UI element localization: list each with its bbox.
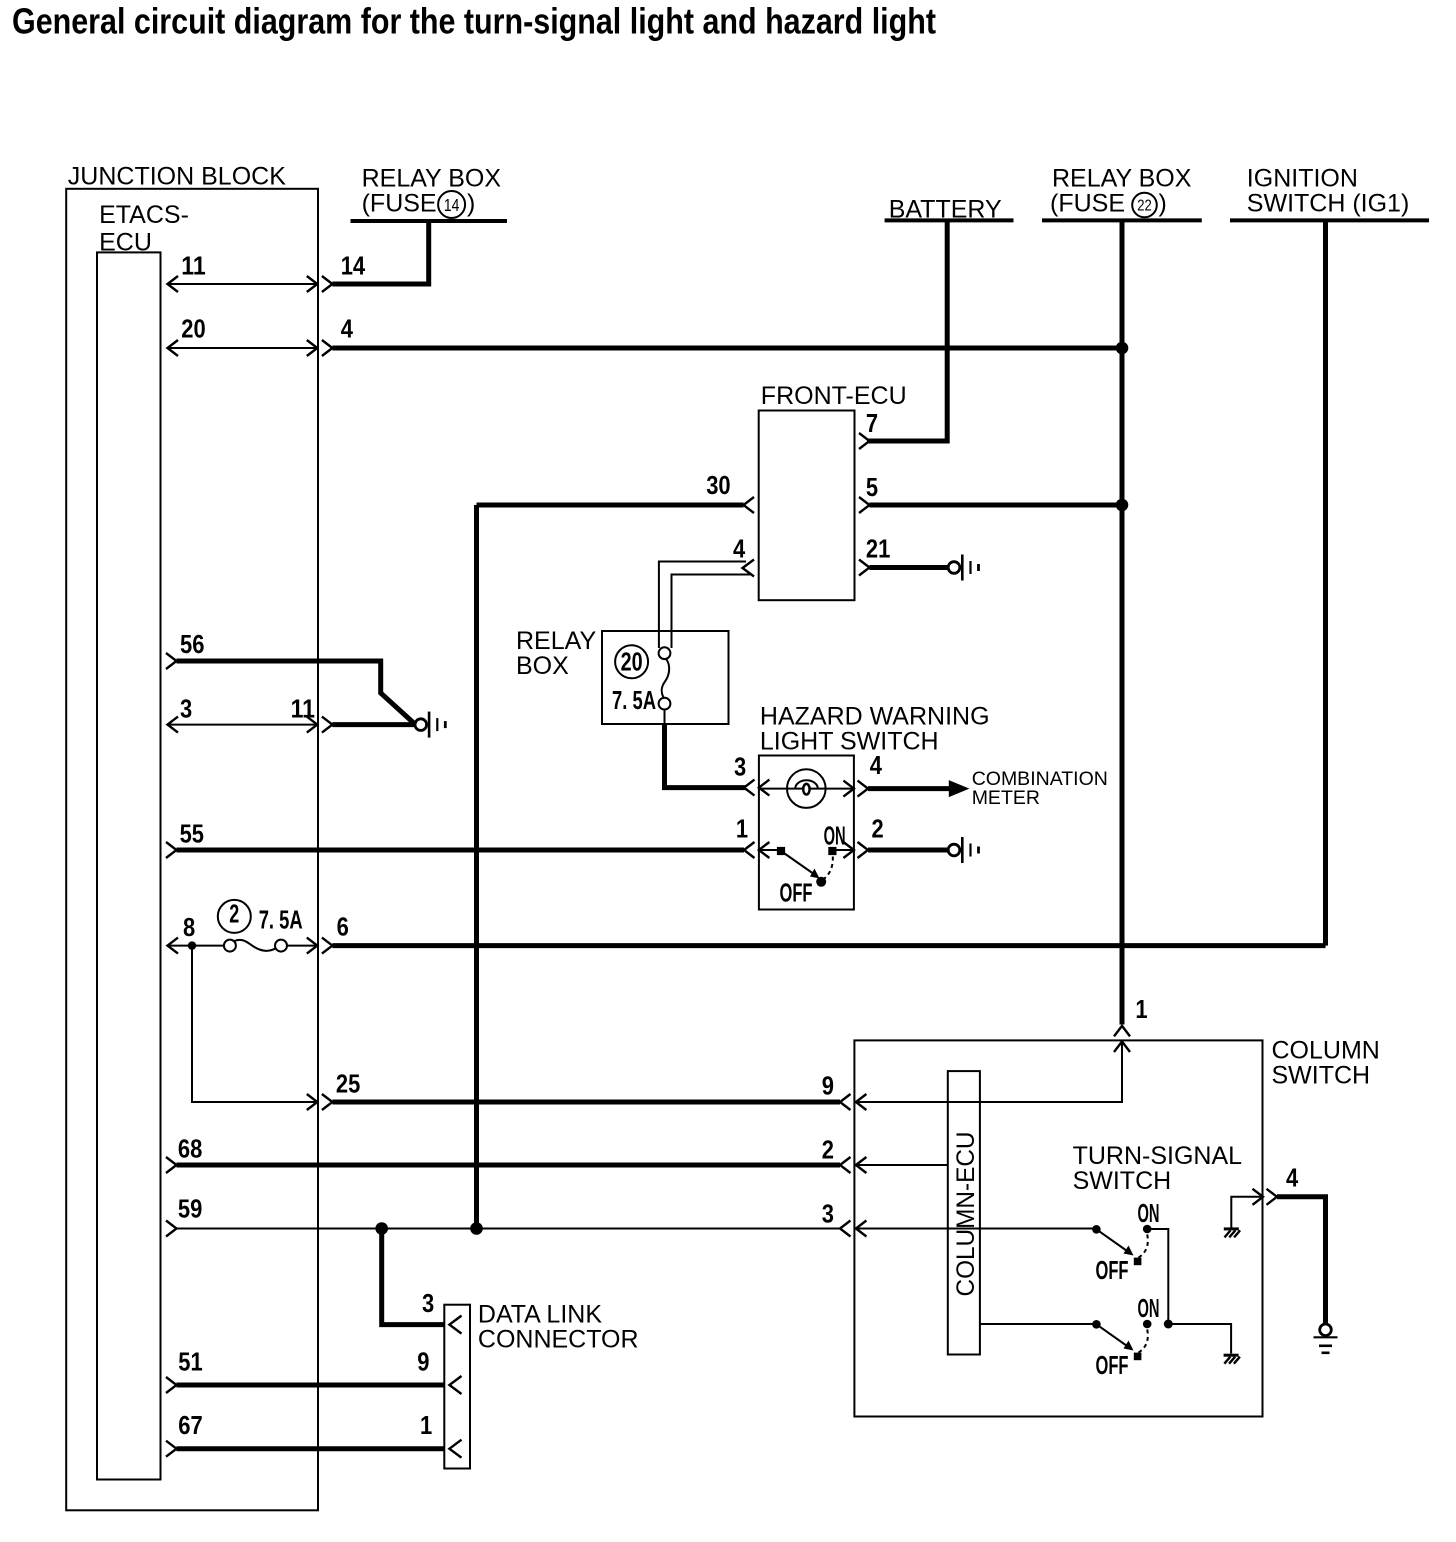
arrow: JB edge y=1102 bbox=[307, 1094, 318, 1110]
pin 4 external wire + ground bbox=[1277, 1197, 1326, 1324]
svg-text:67: 67 bbox=[178, 1410, 202, 1440]
switch 1 bbox=[1092, 1198, 1159, 1285]
arrow: FRONT-ECU pin 4 (tall) bbox=[743, 560, 755, 577]
hazard pin 4 wire to combination meter bbox=[868, 786, 950, 791]
svg-text:59: 59 bbox=[178, 1194, 202, 1224]
SECTION: arrows bbox=[166, 276, 1277, 1458]
svg-text:IGNITION: IGNITION bbox=[1247, 164, 1358, 192]
wire fuse14 to pin 14 bbox=[332, 221, 428, 284]
arrow: hazard right pin y=788.6 bbox=[843, 781, 854, 797]
svg-text:ON: ON bbox=[1138, 1198, 1160, 1228]
arrow: JB edge y=724.6 bbox=[307, 717, 318, 733]
svg-text:RELAY: RELAY bbox=[516, 627, 596, 655]
svg-text:General circuit diagram for th: General circuit diagram for the turn-sig… bbox=[12, 1, 936, 42]
SECTION: column switch bbox=[1272, 1036, 1380, 1089]
wire 25 thick external bbox=[332, 1100, 840, 1105]
arrow: column switch left y=1102 bbox=[840, 1094, 851, 1110]
svg-text:JUNCTION BLOCK: JUNCTION BLOCK bbox=[68, 162, 286, 190]
junction dot at fuse22/wire4 bbox=[1116, 342, 1129, 355]
svg-text:3: 3 bbox=[822, 1199, 834, 1229]
svg-text:): ) bbox=[1159, 190, 1167, 218]
wire 3-11 thin bbox=[168, 724, 318, 726]
arrow: DLC pin y=1385 bbox=[449, 1376, 461, 1394]
svg-text:SWITCH: SWITCH bbox=[1073, 1167, 1172, 1195]
pin 5 wire to fuse22 line bbox=[870, 503, 1123, 508]
SECTION: hazard warning light switch bbox=[760, 703, 990, 756]
SECTION: pin number labels bbox=[178, 250, 1299, 1440]
circled 2 + 7.5A label bbox=[218, 898, 303, 934]
arrow: FRONT-ECU pin 30 bbox=[744, 497, 755, 513]
fuse22 drop wire down to column switch bbox=[1120, 220, 1125, 1024]
switch 2 input from column-ecu bbox=[980, 1323, 1097, 1325]
arrow: ETACS pin in y=284 bbox=[168, 276, 179, 292]
wire 8 branch down to wire 25 bbox=[192, 946, 317, 1102]
chassis ground inside column switch (pin 4) bbox=[1224, 1229, 1240, 1238]
svg-text:CONNECTOR: CONNECTOR bbox=[478, 1326, 639, 1354]
pin 3 internal wire to switch1 bbox=[856, 1228, 1097, 1230]
svg-text:22: 22 bbox=[1137, 197, 1152, 214]
svg-text:1: 1 bbox=[736, 814, 748, 844]
svg-text:21: 21 bbox=[866, 534, 890, 564]
arrow: JB edge y=348 bbox=[307, 340, 318, 356]
hazard internal pin3-4 wire with lamp bbox=[759, 788, 854, 790]
pin 4 internal wire + chassis ground bbox=[1231, 1197, 1263, 1228]
dlc pin3 branch bbox=[382, 1229, 445, 1325]
arrow: FRONT-ECU right pin y=567.5 bbox=[859, 560, 870, 576]
pin 4 double wire to fuse 20 bbox=[659, 562, 746, 649]
SECTION: data link connector bbox=[478, 1301, 639, 1354]
junction dot wire59/dlc3 bbox=[375, 1222, 388, 1235]
fuse20 output to hazard pin 3 bbox=[665, 724, 746, 788]
svg-text:14: 14 bbox=[341, 250, 366, 280]
svg-text:OFF: OFF bbox=[780, 878, 813, 908]
column-ecu box bbox=[948, 1071, 980, 1354]
column switch box bbox=[854, 1040, 1262, 1416]
junction dot switch outputs bbox=[1164, 1320, 1173, 1329]
svg-text:51: 51 bbox=[178, 1346, 202, 1376]
wire 11-14 (thin both-ends) bbox=[168, 283, 318, 285]
turn-signal switch label bbox=[1073, 1142, 1243, 1195]
svg-text:68: 68 bbox=[178, 1134, 202, 1164]
wire 4 thick to fuse22 line bbox=[332, 346, 1122, 351]
arrow: JB edge y=284 bbox=[307, 276, 318, 292]
svg-text:3: 3 bbox=[734, 752, 746, 782]
battery terminal bar bbox=[885, 218, 1014, 222]
relay box (fuse 22) terminal bar bbox=[1042, 218, 1202, 222]
pin 2 internal wire bbox=[856, 1164, 948, 1166]
svg-text:METER: METER bbox=[972, 787, 1040, 809]
svg-text:6: 6 bbox=[337, 912, 349, 942]
svg-text:4: 4 bbox=[870, 750, 883, 780]
svg-text:TURN-SIGNAL: TURN-SIGNAL bbox=[1073, 1142, 1243, 1170]
junction block box bbox=[66, 189, 318, 1511]
svg-text:2: 2 bbox=[872, 814, 884, 844]
svg-text:(FUSE: (FUSE bbox=[362, 190, 437, 218]
switch output to chassis ground bbox=[1168, 1324, 1231, 1354]
svg-text:8: 8 bbox=[183, 912, 195, 942]
arrow: column switch left y=1165 bbox=[840, 1157, 851, 1173]
arrow: DLC pin y=1448.7 bbox=[449, 1440, 461, 1458]
svg-text:RELAY BOX: RELAY BOX bbox=[362, 164, 502, 192]
svg-text:11: 11 bbox=[181, 250, 205, 280]
svg-text:): ) bbox=[467, 190, 475, 218]
pin 9 internal wire bbox=[856, 1101, 1122, 1103]
svg-text:SWITCH (IG1): SWITCH (IG1) bbox=[1247, 190, 1410, 218]
svg-text:3: 3 bbox=[422, 1288, 434, 1318]
hazard warning light switch box bbox=[759, 756, 854, 910]
arrow: ETACS pin out y=1448.7 bbox=[166, 1441, 177, 1457]
arrow: hazard right pin y=850 bbox=[843, 842, 854, 858]
svg-text:55: 55 bbox=[180, 819, 204, 849]
arrow: hazard left pin y=850 bbox=[744, 842, 755, 858]
svg-text:7: 7 bbox=[866, 408, 878, 438]
arrow: column switch top pin 1 bbox=[1114, 1026, 1130, 1037]
arrow: ETACS pin out y=850 bbox=[166, 842, 177, 858]
wire 20-4 thin bbox=[168, 347, 318, 349]
arrow: ETACS pin out y=661 bbox=[166, 653, 177, 669]
arrow: FRONT-ECU right pin y=441 bbox=[859, 433, 870, 449]
arrow: ETACS pin in y=945.6 bbox=[168, 938, 179, 954]
svg-text:DATA LINK: DATA LINK bbox=[478, 1301, 602, 1329]
pin30 vertical line bbox=[474, 505, 479, 1229]
ETACS-ECU label bbox=[99, 201, 189, 256]
svg-text:5: 5 bbox=[866, 472, 878, 502]
arrow: hazard left pin y=787.6 bbox=[744, 780, 755, 796]
wire 6 thick bbox=[332, 943, 1325, 948]
wire 51 bbox=[177, 1383, 445, 1388]
svg-text:ON: ON bbox=[1138, 1293, 1160, 1323]
svg-text:14: 14 bbox=[444, 195, 460, 215]
wire 67 bbox=[177, 1446, 445, 1451]
hazard indicator lamp bbox=[787, 769, 826, 808]
data link connector box bbox=[444, 1305, 470, 1469]
svg-text:25: 25 bbox=[336, 1069, 360, 1099]
arrow: ETACS pin in y=724.6 bbox=[168, 717, 179, 733]
svg-text:4: 4 bbox=[341, 314, 354, 344]
ground symbol at FRONT-ECU pin 21 bbox=[948, 555, 978, 581]
svg-text:7. 5A: 7. 5A bbox=[259, 904, 303, 934]
wire 59 bbox=[177, 1228, 841, 1230]
wire 56 bbox=[177, 661, 416, 725]
pin 30 wire bbox=[477, 503, 744, 508]
wire 11 thick to ground bbox=[332, 722, 415, 727]
svg-text:ETACS-: ETACS- bbox=[99, 201, 189, 229]
pin 21 wire + ground bbox=[870, 565, 949, 570]
arrow: column switch pin 4 bbox=[1253, 1189, 1264, 1205]
svg-text:20: 20 bbox=[621, 647, 643, 677]
fuse 2 symbol bbox=[224, 940, 287, 952]
switch1 out wire down bbox=[1147, 1229, 1168, 1324]
arrow: JB edge y=945.6 bbox=[307, 938, 318, 954]
svg-text:1: 1 bbox=[1135, 994, 1147, 1024]
svg-text:3: 3 bbox=[180, 693, 192, 723]
svg-text:2: 2 bbox=[822, 1135, 834, 1165]
ignition switch label bbox=[1247, 164, 1410, 217]
battery feed wire to FRONT-ECU pin 7 bbox=[867, 220, 947, 441]
IG1 drop wire to wire 6 bbox=[1323, 220, 1328, 945]
svg-text:SWITCH: SWITCH bbox=[1272, 1061, 1371, 1089]
ground for wires 56/11 bbox=[415, 712, 445, 738]
svg-text:1: 1 bbox=[420, 1410, 432, 1440]
svg-text:HAZARD WARNING: HAZARD WARNING bbox=[760, 703, 990, 731]
relay box (fuse 14) terminal bar bbox=[351, 219, 508, 223]
arrow: ETACS pin out y=1228.5 bbox=[166, 1221, 177, 1237]
ignition switch terminal bar bbox=[1230, 218, 1429, 222]
svg-text:FRONT-ECU: FRONT-ECU bbox=[761, 382, 907, 410]
svg-text:56: 56 bbox=[180, 629, 204, 659]
svg-text:OFF: OFF bbox=[1096, 1255, 1129, 1285]
wire 55 bbox=[177, 848, 745, 853]
wire 8-6 with fuse 2 bbox=[168, 945, 225, 947]
svg-text:11: 11 bbox=[291, 693, 315, 723]
battery label bbox=[889, 195, 1002, 223]
svg-text:9: 9 bbox=[417, 1346, 429, 1376]
svg-text:OFF: OFF bbox=[1096, 1350, 1129, 1380]
hazard pin 2 wire + ground bbox=[868, 848, 948, 853]
svg-text:20: 20 bbox=[181, 314, 205, 344]
svg-text:2: 2 bbox=[229, 898, 239, 928]
svg-text:BOX: BOX bbox=[516, 652, 569, 680]
relay box (fuse 22) label bbox=[1050, 164, 1192, 217]
FRONT-ECU box bbox=[759, 411, 855, 601]
arrow: ETACS pin out y=1165 bbox=[166, 1157, 177, 1173]
combination meter label bbox=[972, 768, 1108, 809]
arrow: ETACS pin in y=348 bbox=[168, 340, 179, 356]
arrow: ETACS pin out y=1385 bbox=[166, 1377, 177, 1393]
arrow: FRONT-ECU right pin y=505 bbox=[859, 497, 870, 513]
svg-text:RELAY BOX: RELAY BOX bbox=[1052, 164, 1192, 192]
svg-text:LIGHT SWITCH: LIGHT SWITCH bbox=[760, 728, 939, 756]
junction dot wire59/pin30 line bbox=[470, 1222, 483, 1235]
arrow: DLC pin y=1324.6 bbox=[449, 1316, 461, 1334]
wire 68 bbox=[177, 1163, 841, 1168]
svg-text:4: 4 bbox=[733, 534, 746, 564]
svg-text:30: 30 bbox=[706, 470, 730, 500]
junction dot on wire 8 bbox=[188, 941, 196, 949]
svg-text:COLUMN: COLUMN bbox=[1272, 1036, 1380, 1064]
ETACS-ECU box bbox=[97, 252, 161, 1479]
arrow: column switch left y=1228.5 bbox=[840, 1221, 851, 1237]
svg-text:9: 9 bbox=[822, 1071, 834, 1101]
svg-text:(FUSE: (FUSE bbox=[1050, 190, 1125, 218]
SECTION: relay box fuse 20 bbox=[516, 627, 729, 724]
chassis ground inside column switch (turn-signal) bbox=[1224, 1355, 1240, 1364]
hazard pin1 internal + switch bbox=[759, 849, 781, 851]
svg-text:ON: ON bbox=[824, 821, 846, 851]
svg-text:COLUMN-ECU: COLUMN-ECU bbox=[952, 1132, 980, 1297]
svg-text:4: 4 bbox=[1286, 1163, 1299, 1193]
svg-text:7. 5A: 7. 5A bbox=[612, 685, 656, 715]
ground symbol at hazard pin 2 bbox=[948, 837, 978, 863]
relay box (fuse 14) label bbox=[362, 164, 502, 218]
ground symbol at column switch pin 4 bbox=[1314, 1324, 1338, 1353]
